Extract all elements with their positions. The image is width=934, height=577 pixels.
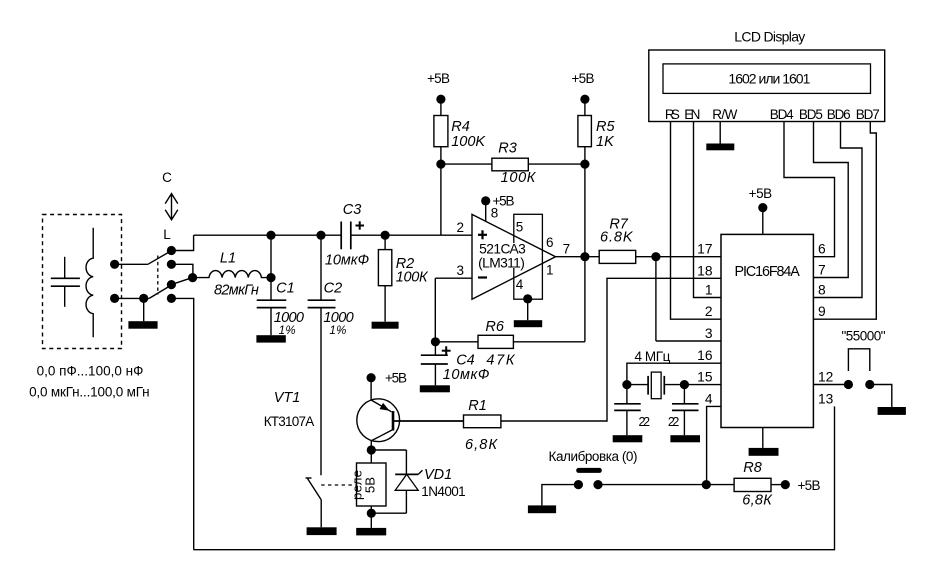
svg-text:+5В: +5В [749,186,773,201]
switch SA1 contact 1 [167,246,176,255]
wire pin18 to R1 [501,278,721,421]
node: output junction [580,252,589,261]
wire R5 bottom / feedback vertical [584,147,586,342]
ground [307,527,337,535]
svg-text:6: 6 [818,242,826,257]
wire R4 to op-amp pin2 [440,164,442,235]
svg-text:C3: C3 [343,202,362,218]
svg-text:R6: R6 [485,319,504,335]
wire BD4 to pin6 [784,122,835,257]
svg-text:+5В: +5В [427,71,450,86]
svg-text:8: 8 [491,206,499,221]
switch SA1 blade A [148,252,170,265]
wire contact4 down to bottom rail [171,298,193,549]
svg-text:+5В: +5В [798,478,821,493]
svg-text:2: 2 [457,220,465,235]
node: SB1 contact left [574,480,583,489]
capacitor C2 [308,235,336,475]
svg-text:BD6: BD6 [827,107,851,122]
svg-text:R3: R3 [498,141,517,157]
svg-text:1000: 1000 [323,310,353,326]
svg-text:521СА3: 521СА3 [479,242,526,257]
diode VD1 1N4001 [371,450,422,513]
IC U2 PIC16F84A [721,234,813,427]
capacitor C3 [341,221,364,249]
svg-text:BD4: BD4 [770,107,794,122]
wire op-amp output [556,256,600,258]
svg-text:Калибровка (0): Калибровка (0) [549,449,638,464]
node: C1 top junction [266,231,275,240]
DUT dashed box [43,215,122,349]
node: R4 bottom junction [436,160,445,169]
node: op-amp gnd pin junction [523,294,532,303]
node: R7/pin17 junction [651,252,660,261]
wire DUT bottom terminal to switch pole B [115,297,150,299]
wire: main top net [194,234,342,236]
svg-text:22: 22 [639,415,651,429]
svg-text:(LM311): (LM311) [478,256,525,271]
node: DUT terminal top [110,260,119,269]
svg-text:C2: C2 [324,281,343,297]
switch SA1 blade B [149,286,170,298]
node: pin4/R8 junction [702,480,711,489]
ground [256,335,285,342]
ground [706,144,734,151]
svg-text:10мкФ: 10мкФ [325,252,369,268]
resistor R4 [434,99,448,164]
node: ground junction on pole B [139,294,148,303]
svg-text:6,8К: 6,8К [742,493,773,509]
svg-text:C: C [162,170,172,185]
wire pin3 stub [656,340,721,342]
wire pin16 [627,363,721,384]
svg-text:22: 22 [668,415,680,429]
wire BD7 to pin9 [813,122,876,320]
svg-text:+5В: +5В [385,370,407,385]
svg-text:4 МГц: 4 МГц [634,349,670,364]
capacitor 22 (right) [672,385,699,436]
node: L1 left junction [188,273,197,282]
svg-text:6,8К: 6,8К [465,437,498,453]
capacitor C1 [257,235,287,335]
capacitor C4 [421,342,451,386]
pushbutton SB1 actuator [576,468,602,473]
svg-text:LCD Display: LCD Display [734,29,805,45]
svg-text:2: 2 [705,304,713,319]
svg-text:R1: R1 [468,398,487,414]
relay K1 coil [350,450,387,528]
wire pin15 [684,384,721,386]
ground [356,528,386,536]
svg-text:100К: 100К [501,170,537,186]
selector arrow [165,194,178,220]
svg-text:9: 9 [818,304,826,319]
mechanical link to relay [321,484,356,486]
inductor L1 [193,271,271,278]
svg-text:VD1: VD1 [424,467,452,483]
wire pin1 (EN) [694,122,722,298]
inductor Lx (device under test) [86,228,93,338]
svg-text:КТ3107А: КТ3107А [264,414,315,429]
wire SB1 right to pin4 node [598,484,706,486]
svg-text:L: L [163,227,171,242]
wire BD6 to pin8 [813,122,862,298]
wire BD5 to pin7 [813,122,848,278]
wire contact3 to L1 node [171,278,192,285]
svg-text:7: 7 [563,242,571,257]
op-amp U1 input wires [435,277,472,279]
svg-text:10мкФ: 10мкФ [443,367,490,383]
svg-text:3: 3 [457,263,465,278]
svg-text:5: 5 [516,220,524,235]
svg-text:82мкГн: 82мкГн [214,283,259,299]
svg-text:4: 4 [705,391,713,406]
wire pin2 (RS) [671,122,722,320]
svg-text:0,0 мкГн...100,0 мГн: 0,0 мкГн...100,0 мГн [29,385,150,400]
wire contact1 to top net [171,235,193,250]
svg-text:13: 13 [818,391,834,406]
svg-text:1N4001: 1N4001 [421,484,465,499]
resistor R2 [378,235,391,322]
node: crystal left [622,380,631,389]
svg-text:100К: 100К [396,269,429,285]
wire DUT top terminal to switch pole A [115,263,148,265]
svg-text:R4: R4 [451,119,470,135]
wire R/W to ground [719,122,721,144]
wire SB1 left to ground [542,485,579,506]
svg-text:VT1: VT1 [274,390,301,406]
svg-text:R/W: R/W [712,107,737,122]
relay contact switch [306,478,322,527]
svg-text:BD5: BD5 [799,107,823,122]
svg-text:R8: R8 [743,460,762,476]
capacitor 22 (left) [614,385,641,436]
node: SB2 contact right [865,380,874,389]
crystal ZQ1 [627,372,685,399]
pushbutton SB2 actuator [848,349,869,371]
svg-text:1: 1 [546,263,554,278]
resistor R8 [706,478,785,491]
svg-text:3: 3 [705,326,713,341]
ground [420,385,450,392]
svg-text:0,0 пФ...100,0 нФ: 0,0 пФ...100,0 нФ [37,364,144,379]
ground [372,322,399,329]
node: crystal right [680,380,689,389]
ground [670,435,700,442]
svg-text:17: 17 [697,242,712,257]
svg-text:18: 18 [697,263,713,278]
svg-text:7: 7 [818,263,826,278]
svg-text:100K: 100K [451,134,486,150]
node: SB1 contact right [593,480,602,489]
ground [613,435,643,442]
svg-text:6.8K: 6.8K [600,230,634,246]
wire: bottom rail to pin13 [194,406,835,549]
wire SB2 to ground [870,385,892,408]
switch SA1 mechanical link [157,256,159,295]
svg-text:1%: 1% [329,325,346,337]
node: R3/R5 junction [580,160,589,169]
svg-text:1K: 1K [596,134,615,150]
node: collector junction [367,445,376,454]
transistor VT1 КТ3107А [357,378,464,450]
resistor R6 [435,335,585,348]
svg-text:5В: 5В [363,477,378,493]
svg-text:1602 или 1601: 1602 или 1601 [728,71,810,87]
switch SA1 contact 2 [167,260,176,269]
op-amp U1 521СА3 (LM311) [472,214,556,299]
svg-text:C1: C1 [276,281,295,297]
resistor R1 [394,415,501,428]
node: L1 right junction [266,273,275,282]
svg-text:PIC16F84A: PIC16F84A [735,264,801,280]
svg-text:EN: EN [684,107,700,122]
svg-text:4: 4 [516,277,524,292]
svg-text:1000: 1000 [274,310,304,326]
svg-text:1: 1 [705,283,713,298]
svg-text:"55000": "55000" [842,329,886,344]
svg-text:12: 12 [818,370,833,385]
svg-text:1%: 1% [279,325,296,337]
wire contact2 to L1 node [171,264,193,277]
svg-text:RS: RS [665,107,680,122]
switch SA1 contact 3 [167,280,176,289]
node: R6/C4/pin3 junction [431,337,440,346]
resistor R3 [441,158,585,171]
node: DUT terminal bottom [110,294,119,303]
wire pin17 to pin3 [655,257,657,341]
ground [143,298,145,321]
svg-text:6: 6 [546,235,554,250]
svg-text:L1: L1 [220,251,236,267]
svg-text:8: 8 [818,283,826,298]
ground [528,505,556,513]
pin 8 +5B [481,196,490,205]
node: relay bottom junction [367,509,376,518]
wire pin12 [813,384,848,386]
node: SB2 contact left [844,380,853,389]
svg-text:R5: R5 [596,119,615,135]
power +5B (R8) [781,480,790,489]
resistor R5 [578,99,592,147]
resistor R7 [599,250,721,263]
wire pin4 vertical [707,406,721,484]
svg-text:15: 15 [697,370,713,385]
ground [527,299,529,320]
svg-text:47К: 47К [486,353,515,369]
node: R2 top junction [381,231,390,240]
svg-text:16: 16 [697,348,713,363]
svg-text:+5В: +5В [572,71,595,86]
ground [878,407,906,415]
switch SA1 contact 4 [167,294,176,303]
capacitor Cx (device under test) [51,257,80,307]
svg-text:BD7: BD7 [856,107,880,122]
ground (PIC) [762,428,764,448]
LCD display module [649,50,885,122]
node: C2 top junction [316,231,325,240]
